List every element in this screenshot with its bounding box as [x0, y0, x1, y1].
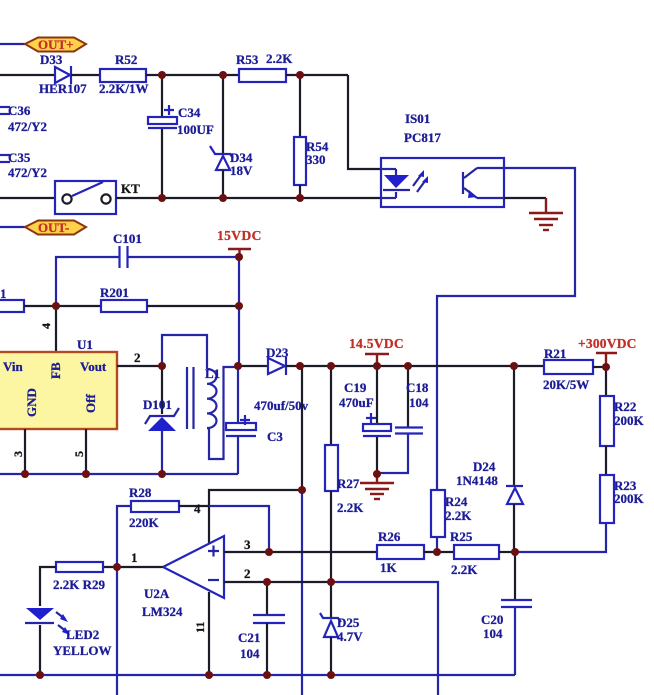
wire: [147, 305, 239, 307]
svg-text:R25: R25: [450, 529, 473, 544]
svg-text:U2A: U2A: [144, 586, 170, 601]
svg-text:D23: D23: [266, 345, 289, 360]
resistor R24: [431, 490, 472, 552]
svg-text:470uf/50v: 470uf/50v: [254, 398, 309, 413]
wire pin2 ext: [331, 582, 438, 695]
svg-text:220K: 220K: [129, 515, 160, 530]
svg-text:IS01: IS01: [405, 111, 430, 126]
wire OUT- lead: [0, 226, 26, 228]
wire output pin1: [103, 566, 163, 568]
svg-text:GND: GND: [24, 388, 39, 417]
svg-text:R22: R22: [614, 399, 636, 414]
wire: [146, 74, 239, 76]
svg-text:C34: C34: [178, 105, 201, 120]
svg-text:R53: R53: [236, 52, 259, 67]
resistor R27: [325, 366, 364, 582]
wire R29 to LED: [40, 567, 56, 606]
svg-text:Vin: Vin: [3, 359, 24, 374]
wire OUT+ lead: [0, 43, 26, 45]
wire FB pin: [55, 306, 57, 352]
wire gnd rail (U1 section): [0, 473, 238, 475]
IC U1: [0, 337, 117, 429]
flag OUT+: [25, 38, 86, 52]
svg-text:C21: C21: [238, 630, 260, 645]
wire 15VDC column: [238, 257, 240, 366]
power +300VDC: [578, 336, 637, 367]
svg-text:PC817: PC817: [404, 130, 441, 145]
svg-text:C18: C18: [406, 380, 429, 395]
svg-text:R24: R24: [445, 494, 468, 509]
svg-text:18V: 18V: [230, 163, 253, 178]
diode D23: [266, 345, 289, 375]
svg-text:20K/5W: 20K/5W: [543, 377, 589, 392]
svg-text:R201: R201: [100, 285, 129, 300]
svg-text:D33: D33: [40, 52, 63, 67]
diode D24: [456, 366, 523, 552]
wire bottom rail: [0, 197, 55, 199]
wire R23 to pin3 rail: [515, 523, 606, 552]
wire: [286, 74, 348, 76]
svg-text:LED2: LED2: [66, 627, 99, 642]
svg-text:2.2K R29: 2.2K R29: [53, 577, 106, 592]
svg-text:4: 4: [39, 323, 53, 329]
svg-text:4: 4: [194, 501, 201, 516]
svg-text:OUT+: OUT+: [38, 37, 74, 52]
wire Vout pin 2: [117, 365, 162, 367]
resistor R1 partial: [0, 286, 24, 312]
op-amp U2A: [142, 536, 224, 619]
svg-text:330: 330: [306, 152, 326, 167]
svg-text:1: 1: [131, 550, 138, 565]
wire: [24, 305, 101, 307]
svg-text:R26: R26: [378, 529, 401, 544]
wire: [71, 74, 100, 76]
capacitor C101: [56, 231, 239, 306]
wire pin2: [224, 581, 331, 583]
svg-text:HER107: HER107: [39, 81, 87, 96]
capacitor C36: [0, 103, 47, 134]
capacitor C34: [148, 75, 214, 198]
svg-text:D101: D101: [143, 397, 172, 412]
svg-text:104: 104: [409, 395, 429, 410]
wire opto emitter: [504, 197, 546, 199]
wire main 14.5V rail: [238, 365, 268, 367]
power 14.5VDC: [349, 336, 404, 366]
svg-text:200K: 200K: [614, 413, 645, 428]
svg-text:C19: C19: [344, 380, 367, 395]
wire bottom rail right: [116, 197, 381, 199]
capacitor C3: [226, 366, 309, 474]
wire: [605, 446, 607, 475]
ground (opto): [529, 198, 563, 230]
svg-text:472/Y2: 472/Y2: [8, 119, 47, 134]
wire R28 right: [179, 505, 209, 507]
resistor R25: [450, 529, 499, 577]
svg-text:200K: 200K: [614, 491, 645, 506]
svg-text:LM324: LM324: [142, 604, 183, 619]
capacitor C21: [238, 582, 285, 675]
svg-text:1K: 1K: [380, 560, 398, 575]
svg-text:+300VDC: +300VDC: [578, 336, 637, 351]
resistor R28: [129, 485, 179, 530]
wire: [424, 551, 454, 553]
svg-text:15VDC: 15VDC: [217, 228, 262, 243]
svg-text:Vout: Vout: [80, 359, 107, 374]
svg-text:D24: D24: [473, 459, 496, 474]
svg-text:U1: U1: [77, 337, 93, 352]
wire rail x302: [301, 366, 303, 490]
svg-text:2.2K/1W: 2.2K/1W: [99, 81, 148, 96]
capacitor C20: [481, 552, 532, 675]
svg-text:Off: Off: [83, 394, 98, 413]
wire to opto top: [348, 75, 381, 169]
svg-text:R28: R28: [129, 485, 152, 500]
resistor R201: [100, 285, 147, 312]
resistor R52: [99, 52, 148, 96]
svg-text:2.2K: 2.2K: [451, 562, 478, 577]
optocoupler IS01: [381, 111, 504, 207]
svg-text:2.2K: 2.2K: [445, 508, 472, 523]
wire main rail: [286, 365, 544, 367]
flag OUT-: [25, 221, 86, 235]
svg-text:R52: R52: [115, 52, 137, 67]
zener D34: [210, 75, 253, 198]
svg-text:2.2K: 2.2K: [266, 51, 293, 66]
svg-text:C36: C36: [8, 103, 31, 118]
wire: [499, 551, 515, 553]
svg-text:14.5VDC: 14.5VDC: [349, 336, 404, 351]
resistor R21: [543, 346, 593, 392]
zener D101: [143, 366, 179, 474]
wire pin4 column: [209, 490, 302, 543]
svg-text:4.7V: 4.7V: [337, 629, 363, 644]
svg-text:YELLOW: YELLOW: [53, 643, 112, 658]
wire pin3: [224, 551, 377, 553]
wire: [593, 366, 606, 368]
wire top rail left: [0, 74, 55, 76]
capacitor C35: [0, 150, 47, 180]
switch KT: [55, 181, 140, 214]
ground (C19): [360, 474, 394, 499]
resistor R23: [600, 475, 645, 523]
svg-text:C20: C20: [481, 612, 503, 627]
svg-text:1: 1: [0, 286, 7, 301]
svg-text:104: 104: [483, 626, 503, 641]
svg-text:L1: L1: [205, 366, 220, 381]
svg-text:3: 3: [11, 451, 25, 457]
svg-text:2.2K: 2.2K: [337, 500, 364, 515]
svg-text:100UF: 100UF: [177, 122, 214, 137]
capacitor C19: [339, 366, 391, 474]
diode D33: [39, 52, 87, 96]
resistor R26: [377, 529, 424, 575]
resistor R53: [236, 51, 293, 82]
svg-text:R21: R21: [544, 346, 566, 361]
resistor R54: [294, 75, 329, 198]
power 15VDC: [217, 228, 262, 257]
wire pin11: [208, 592, 210, 675]
svg-text:OUT-: OUT-: [38, 220, 69, 235]
svg-text:470uF: 470uF: [339, 395, 374, 410]
svg-text:KT: KT: [121, 181, 140, 196]
svg-text:11: 11: [193, 622, 207, 633]
resistor R29: [53, 562, 106, 592]
svg-text:104: 104: [240, 646, 260, 661]
svg-text:C101: C101: [113, 231, 142, 246]
zener D25: [320, 582, 363, 675]
svg-text:3: 3: [244, 537, 251, 552]
svg-text:C35: C35: [8, 150, 31, 165]
wire R28 left to column: [117, 506, 131, 695]
svg-text:R27: R27: [337, 476, 360, 491]
svg-text:D25: D25: [337, 615, 360, 630]
wire blue L to pin3: [209, 506, 269, 552]
wire bottom rail: [0, 674, 515, 676]
capacitor C18: [377, 366, 429, 473]
svg-text:5: 5: [72, 451, 86, 457]
pin wires U1 bottom: [24, 429, 26, 474]
svg-text:2: 2: [244, 566, 251, 581]
LED LED2: [25, 608, 112, 675]
resistor R22: [600, 367, 645, 446]
inductor L1: [162, 335, 238, 459]
svg-text:472/Y2: 472/Y2: [8, 165, 47, 180]
svg-text:2: 2: [134, 350, 141, 365]
wire opto collector loop: [437, 168, 575, 490]
svg-text:C3: C3: [267, 429, 283, 444]
svg-text:1N4148: 1N4148: [456, 473, 498, 488]
svg-text:FB: FB: [48, 362, 63, 379]
